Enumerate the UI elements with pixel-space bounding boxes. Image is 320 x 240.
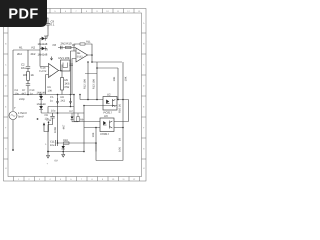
optocoupler U2 PC817 (103, 93, 117, 115)
resistor R15 (123, 62, 128, 100)
resistor R13 (93, 68, 98, 100)
svg-text:R12 10K: R12 10K (83, 79, 86, 89)
capacitor C2 (26, 50, 30, 71)
svg-text:10K: 10K (92, 132, 95, 137)
trimmer RV1 (59, 56, 71, 71)
wire: bottom network box (48, 143, 96, 152)
net label 0V (47, 160, 58, 166)
net arrow -V a (56, 98, 59, 104)
wire: input line (13, 49, 40, 51)
ground GND2 (62, 152, 65, 158)
capacitor C6 (53, 43, 63, 49)
resistor R12 (83, 62, 88, 100)
svg-text:10K: 10K (113, 76, 116, 81)
net arrow -V b (69, 98, 72, 104)
node: lower rail junctions (40, 94, 71, 114)
svg-text:C12: C12 (47, 119, 52, 122)
svg-text:U3: U3 (104, 114, 108, 118)
svg-text:10K: 10K (125, 76, 128, 81)
svg-text:10u: 10u (21, 66, 26, 70)
svg-text:1K: 1K (118, 138, 121, 141)
wire: op-amp U1A output (59, 65, 63, 78)
wire: mid horizontal rail (13, 94, 74, 96)
svg-text:2N2 R10: 2N2 R10 (61, 42, 72, 46)
resistor R11 feedback (74, 41, 92, 55)
diode D3 (37, 92, 47, 106)
svg-text:R13 10K: R13 10K (93, 79, 96, 89)
svg-text:R16 1K: R16 1K (119, 104, 122, 113)
svg-text:0V: 0V (55, 160, 58, 163)
resistor R17 (118, 127, 123, 152)
svg-text:R1: R1 (19, 45, 23, 49)
wire: U3 outputs (96, 122, 129, 161)
node: bottom rail junctions (47, 142, 85, 152)
diode D4 (37, 103, 47, 113)
svg-text:10K: 10K (118, 147, 121, 152)
wire: into optocoupler U2 (80, 95, 103, 100)
svg-text:5mV: 5mV (18, 114, 24, 118)
svg-text:4K7: 4K7 (22, 92, 27, 95)
resistor R19 (92, 127, 97, 144)
wire: left rail (12, 50, 14, 150)
svg-text:C6: C6 (53, 43, 57, 47)
svg-text:R18: R18 (63, 139, 68, 142)
wire: U2 outputs (84, 100, 129, 122)
resistor R18 (63, 139, 69, 144)
resistor R5 (61, 78, 70, 95)
connector arrow A (50, 57, 52, 61)
svg-text:G: G (5, 148, 7, 151)
node: left rail bottom (12, 149, 14, 151)
wire: coupling line to U1B (58, 47, 76, 49)
svg-text:R3: R3 (23, 73, 27, 77)
node: output junction (91, 61, 93, 63)
svg-text:TL072: TL072 (39, 70, 47, 73)
svg-text:R2: R2 (32, 45, 36, 49)
resistor R16 (119, 100, 123, 128)
wire: entry to diode rail (44, 29, 48, 36)
wire: U1B inputs (71, 51, 77, 95)
wire: U1B output net (88, 55, 123, 68)
svg-text:100K: 100K (54, 127, 57, 133)
resistor R14 (113, 68, 118, 100)
svg-text:1N4148: 1N4148 (38, 42, 48, 46)
svg-text:1K: 1K (31, 73, 35, 77)
resistor R7 (22, 89, 27, 95)
ground GND1 (47, 152, 50, 159)
svg-text:RV1 10K: RV1 10K (59, 56, 70, 60)
diode D8 (62, 144, 65, 151)
svg-text:R11: R11 (86, 41, 91, 44)
svg-text:10u: 10u (15, 92, 20, 95)
svg-text:PDF: PDF (8, 7, 38, 23)
diode D7 (70, 110, 79, 122)
svg-text:1N4148: 1N4148 (37, 103, 47, 106)
svg-text:-: - (49, 65, 50, 69)
node: u2 input junctions (83, 99, 98, 107)
wire: bias link (85, 73, 97, 75)
svg-text:PC817: PC817 (101, 132, 110, 136)
svg-text:U2: U2 (107, 93, 111, 97)
connector arrow J1 (37, 118, 52, 131)
svg-text:D7: D7 (70, 110, 74, 113)
svg-text:0.1: 0.1 (51, 23, 55, 27)
svg-text:10u: 10u (51, 110, 56, 113)
resistor R2 (31, 45, 36, 56)
capacitor C5 label (50, 96, 66, 113)
capacitor C11 (45, 140, 57, 147)
op-amp U1B NE5532 (76, 48, 88, 62)
svg-text:10u: 10u (50, 144, 55, 147)
resistor R20 label (54, 124, 66, 133)
capacitor C8 (45, 113, 55, 152)
resistor R6 (48, 86, 53, 92)
svg-text:4K7: 4K7 (63, 124, 66, 129)
PDF badge (0, 0, 47, 27)
svg-text:CW: CW (65, 85, 70, 89)
node junctions on mid rail (27, 94, 81, 96)
svg-text:G: G (143, 148, 145, 151)
resistor R1 (17, 45, 23, 56)
op-amp U1A TL072 (39, 64, 59, 78)
svg-text:R9: R9 (80, 119, 84, 122)
svg-text:2K2: 2K2 (61, 99, 66, 102)
node: r12 top (87, 61, 89, 63)
svg-text:10K: 10K (48, 89, 53, 92)
diode D5 1N4148 (38, 36, 48, 46)
ac source V1 (9, 106, 27, 120)
resistor R9 (77, 113, 84, 122)
capacitor C3 (26, 81, 30, 95)
node: u2 right junctions (117, 99, 124, 101)
svg-text:2K2: 2K2 (31, 52, 36, 56)
svg-text:5532: 5532 (77, 55, 83, 58)
svg-text:1N4148: 1N4148 (38, 52, 48, 56)
svg-text:220p: 220p (19, 98, 25, 101)
capacitor C10 (19, 89, 35, 101)
optocoupler U3 PC817 (100, 114, 114, 136)
wire: top entry from frame (44, 13, 48, 21)
diode D6 1N4148 (38, 46, 48, 56)
wire: op-amp U1A inputs (40, 67, 49, 95)
wire: diode rail (40, 36, 47, 67)
wire: lower rails (41, 95, 84, 144)
svg-text:2K2: 2K2 (17, 52, 22, 56)
capacitor C13 (69, 64, 73, 66)
wire: into optocoupler U3 (74, 95, 100, 152)
resistor R10 (61, 42, 77, 49)
resistor R3 (23, 72, 34, 81)
capacitor C9 (46, 21, 50, 29)
